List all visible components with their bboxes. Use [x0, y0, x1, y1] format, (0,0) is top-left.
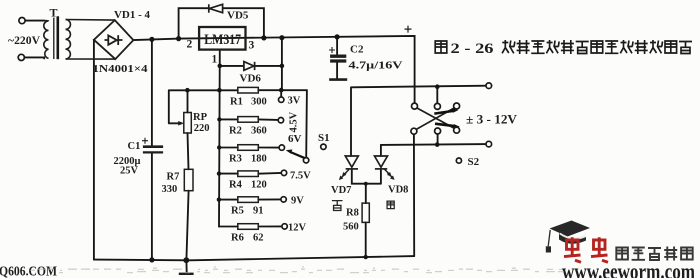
svg-text:R4: R4	[229, 180, 243, 191]
svg-text:VD8: VD8	[388, 185, 408, 196]
svg-text:www.eeworm.com: www.eeworm.com	[562, 259, 695, 278]
svg-text:R2: R2	[229, 125, 242, 136]
svg-text:VD1 - 4: VD1 - 4	[114, 9, 150, 21]
svg-text:2: 2	[187, 39, 193, 51]
svg-text:S2: S2	[468, 156, 480, 168]
svg-text:VD5: VD5	[227, 10, 249, 22]
svg-text:RP: RP	[193, 112, 208, 123]
svg-text:3: 3	[249, 40, 255, 52]
svg-text:560: 560	[343, 221, 359, 232]
svg-text:9V: 9V	[291, 196, 304, 207]
svg-text:91: 91	[253, 206, 264, 217]
svg-text:LM317: LM317	[204, 32, 241, 48]
svg-text:R3: R3	[229, 154, 242, 165]
svg-text:2 - 26: 2 - 26	[451, 41, 495, 57]
svg-text:R8: R8	[346, 207, 359, 218]
svg-text:S1: S1	[318, 132, 330, 144]
svg-text:4.5V: 4.5V	[289, 111, 300, 132]
svg-text:300: 300	[251, 96, 267, 107]
svg-text:Q606.COM: Q606.COM	[0, 264, 57, 278]
svg-text:3V: 3V	[288, 95, 301, 106]
svg-text:62: 62	[253, 233, 264, 244]
svg-text:330: 330	[162, 184, 178, 195]
svg-text:120: 120	[251, 180, 267, 191]
svg-text:1: 1	[212, 54, 218, 66]
svg-text:12V: 12V	[288, 223, 307, 234]
svg-text:R5: R5	[231, 206, 244, 217]
svg-text:T: T	[50, 6, 58, 20]
svg-text:C1: C1	[128, 141, 141, 152]
svg-text:180: 180	[251, 154, 267, 165]
svg-text:VD6: VD6	[240, 73, 262, 85]
svg-text:R1: R1	[230, 96, 243, 107]
svg-text:1N4001×4: 1N4001×4	[93, 63, 149, 75]
svg-text:R7: R7	[167, 172, 180, 183]
svg-text:25V: 25V	[120, 166, 139, 177]
svg-text:6V: 6V	[288, 133, 302, 145]
svg-text:360: 360	[251, 125, 267, 136]
svg-text:R6: R6	[231, 233, 244, 244]
svg-text:VD7: VD7	[331, 185, 351, 196]
svg-text:C2: C2	[350, 44, 364, 56]
svg-text:4.7μ/16V: 4.7μ/16V	[349, 60, 404, 71]
svg-text:7.5V: 7.5V	[290, 171, 311, 182]
svg-text:220: 220	[194, 123, 210, 134]
svg-text:~220V: ~220V	[8, 35, 41, 47]
svg-text:± 3 - 12V: ± 3 - 12V	[466, 113, 517, 127]
